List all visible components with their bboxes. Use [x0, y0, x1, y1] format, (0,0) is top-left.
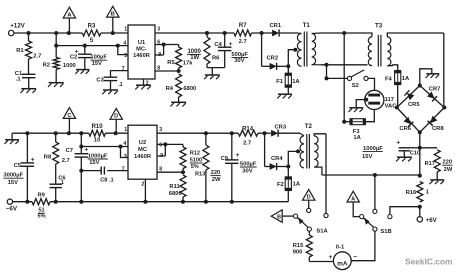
wire S2 branch — [325, 65, 348, 81]
svg-text:T2: T2 — [305, 123, 313, 130]
svg-text:mA: mA — [337, 261, 348, 268]
op-amp U2 MC-1460R — [128, 125, 157, 179]
wire pin 6/9 loop — [155, 45, 164, 56]
diode CR2 — [262, 56, 279, 70]
wire pin 2 ground stem — [143, 79, 145, 85]
node rail-C6 bottom — [54, 200, 58, 204]
node R5-R4-pin8 — [177, 69, 181, 73]
svg-text:0‑1: 0‑1 — [336, 244, 345, 250]
terminal +6V — [417, 207, 438, 224]
contact D S1A — [307, 208, 311, 212]
svg-text:2.7: 2.7 — [33, 53, 41, 59]
resistor R17 — [420, 148, 453, 180]
node CR4-F2 junction — [286, 165, 290, 169]
pin 3 label U1 — [157, 27, 160, 33]
wire R15 to meter — [309, 261, 333, 263]
switch S1B arm — [363, 218, 391, 235]
svg-text:220: 220 — [442, 160, 452, 166]
contact +6V S1B — [388, 215, 392, 219]
svg-text:S2: S2 — [352, 83, 359, 89]
node rail-R13 — [204, 131, 208, 135]
chassis ground bridge — [420, 69, 440, 86]
svg-text:C3: C3 — [96, 78, 104, 84]
contact meter S1B — [373, 227, 377, 231]
resistor R2 — [43, 46, 76, 83]
resistor R12 — [180, 144, 203, 172]
switch S1A arm — [297, 217, 328, 234]
node rail-C4 — [223, 31, 227, 35]
svg-text:CR5: CR5 — [408, 102, 420, 108]
resistor R6 1000 1W — [187, 33, 220, 68]
svg-text:100µF: 100µF — [90, 55, 107, 61]
wire R14 to CR3 — [258, 132, 271, 134]
diode CR6 — [399, 117, 413, 132]
svg-text:5%: 5% — [37, 214, 45, 220]
svg-text:500µF: 500µF — [240, 161, 257, 167]
svg-text:.1: .1 — [109, 177, 114, 183]
diode CR4 — [265, 156, 284, 170]
svg-text:R3: R3 — [88, 24, 96, 30]
svg-text:7: 7 — [122, 166, 125, 172]
node rail-R11 bottom — [181, 200, 185, 204]
svg-text:1A: 1A — [402, 76, 410, 82]
svg-text:3: 3 — [159, 127, 162, 133]
pin 4 label U2 — [123, 141, 126, 147]
pin 9 label U1 — [158, 52, 161, 58]
wire pin4 branch — [56, 33, 128, 46]
svg-text:C2: C2 — [70, 54, 77, 60]
capacitor C3 — [96, 77, 122, 90]
resistor R13 — [195, 133, 221, 202]
svg-text:R6: R6 — [212, 56, 220, 62]
node A marker bottom — [347, 191, 360, 216]
wire S1B upper drop — [374, 175, 376, 209]
svg-text:+: + — [329, 254, 333, 261]
svg-text:F1: F1 — [276, 79, 284, 85]
pin 5 label U2 — [124, 154, 127, 160]
svg-text:−: − — [353, 254, 357, 261]
svg-text:CR2: CR2 — [266, 56, 278, 62]
node A marker — [63, 7, 75, 33]
svg-text:5100: 5100 — [190, 157, 202, 163]
svg-text:R9: R9 — [37, 193, 45, 199]
svg-text:R4: R4 — [166, 86, 174, 92]
ground R6/C4 — [204, 75, 220, 79]
wire pin 2 to rail — [144, 179, 146, 202]
svg-text:+6V: +6V — [426, 217, 438, 224]
wire mid rail — [12, 132, 89, 134]
wire CR4 to tap — [277, 166, 289, 168]
resistor R1 — [16, 33, 41, 74]
node C marker — [63, 108, 75, 134]
node rail-C7 — [79, 131, 83, 135]
chassis ground mid rail — [4, 133, 19, 144]
svg-text:R16: R16 — [406, 190, 417, 196]
pin 1 label U2 — [124, 127, 127, 133]
svg-text:1000µF: 1000µF — [88, 153, 108, 159]
wire R6-C4 bottom — [207, 68, 225, 75]
wire meter to S1B — [351, 231, 375, 261]
bridge arm wires — [397, 86, 445, 133]
capacitor C2 — [70, 46, 108, 70]
pin 6 label U1 — [157, 39, 160, 45]
svg-text:8: 8 — [159, 166, 162, 172]
svg-text:5: 5 — [124, 154, 127, 160]
svg-text:500µF: 500µF — [231, 52, 248, 58]
svg-text:R15: R15 — [293, 243, 304, 249]
node bridge left — [395, 106, 399, 110]
pin 7 label U2 — [122, 166, 125, 172]
resistor R10 — [89, 124, 106, 144]
capacitor C6 — [49, 175, 65, 201]
svg-text:+: + — [236, 152, 240, 159]
svg-text:C: C — [67, 113, 71, 119]
node pin6-junction U2 — [163, 142, 167, 146]
svg-text:1A: 1A — [353, 135, 361, 141]
wire C8 to C7 stem — [79, 169, 101, 173]
wire CR4 branch down — [264, 133, 266, 166]
svg-text:F2: F2 — [277, 182, 284, 188]
wire right edge down — [443, 33, 445, 108]
resistor R15 — [293, 231, 313, 261]
node rail-C7 bottom — [79, 200, 83, 204]
node T1 primary tap — [288, 48, 297, 73]
capacitor C4 — [214, 33, 248, 68]
pin 2 label U1 — [146, 80, 149, 86]
ground R17 — [430, 180, 445, 184]
node rail-pin2 bottom — [143, 200, 147, 204]
node rail-triangle-C — [67, 131, 71, 135]
wire pin 8 stub U2 — [157, 171, 183, 173]
wire -6V to R9 — [13, 201, 32, 203]
pin 5 label U1 — [124, 53, 127, 59]
svg-text:B: B — [277, 214, 281, 220]
svg-text:2.7: 2.7 — [239, 39, 247, 45]
svg-text:3000µF: 3000µF — [3, 173, 23, 179]
node B marker — [107, 6, 119, 33]
svg-text:S1B: S1B — [380, 229, 391, 235]
svg-text:+12V: +12V — [10, 23, 25, 30]
node CR4 branch — [263, 131, 267, 135]
svg-text:R8: R8 — [44, 154, 52, 160]
node rail-R6 — [205, 31, 209, 35]
node rail-R2 branch — [54, 31, 58, 35]
svg-text:R13: R13 — [195, 172, 205, 178]
svg-text:C5: C5 — [14, 163, 22, 169]
wire pin 3 rail U2 — [157, 132, 238, 134]
node pin4-pin5 split U2 — [119, 145, 123, 149]
svg-text:6: 6 — [159, 142, 162, 148]
svg-text:2W: 2W — [444, 167, 453, 173]
svg-text:1000: 1000 — [63, 63, 76, 69]
switch S2 — [347, 70, 368, 89]
capacitor C10 — [362, 140, 420, 160]
pin 1 label U1 — [124, 27, 127, 33]
wire T2 secondary top drop — [325, 134, 327, 214]
switch S1B pivot — [360, 215, 364, 219]
svg-text:MC: MC — [138, 147, 148, 153]
resistor R11 — [169, 175, 186, 202]
node D marker bottom — [303, 189, 315, 208]
op-amp U1 MC-1460R — [128, 25, 155, 79]
wire pin 3 rail — [155, 32, 234, 34]
node bridge top — [418, 84, 422, 88]
wire pin4 stub — [121, 146, 129, 148]
node CR2 branch — [260, 31, 264, 35]
node rail-C9 bottom — [230, 200, 234, 204]
wire plug chassis — [356, 98, 368, 108]
transformer T3 — [368, 23, 393, 67]
svg-text:.1: .1 — [16, 77, 22, 83]
diode CR5 — [404, 90, 420, 108]
svg-text:2.7: 2.7 — [62, 158, 70, 164]
svg-text:CR1: CR1 — [269, 23, 281, 29]
pin 2 label U2 — [141, 181, 144, 187]
capacitor C1 — [15, 71, 36, 89]
capacitor C5 — [3, 133, 34, 202]
svg-text:117: 117 — [385, 97, 394, 103]
svg-text:1A: 1A — [293, 181, 301, 187]
node rail-triangle-A — [67, 31, 71, 35]
svg-text:1W: 1W — [190, 55, 199, 61]
resistor R3 — [82, 24, 101, 44]
ground C2 — [75, 70, 89, 74]
svg-text:10: 10 — [94, 138, 100, 144]
svg-text:.1: .1 — [59, 180, 64, 186]
pin 3 label U2 — [159, 127, 162, 133]
fuse F2 1A — [277, 167, 301, 202]
wire S2 to plug — [368, 78, 374, 90]
svg-text:C8: C8 — [100, 177, 107, 183]
capacitor C9 — [221, 133, 257, 202]
svg-text:1: 1 — [426, 190, 429, 196]
resistor R7 — [234, 23, 252, 45]
contact R15 S1A — [307, 227, 311, 231]
wire pin 7 stub — [107, 170, 128, 172]
node rail-R1 — [27, 31, 31, 35]
svg-text:1460R: 1460R — [134, 154, 152, 160]
svg-text:S1A: S1A — [316, 228, 328, 234]
wire pin 7 to C3 — [111, 71, 129, 78]
svg-text:6800: 6800 — [183, 86, 196, 92]
svg-text:15V: 15V — [8, 180, 18, 186]
svg-text:R5: R5 — [167, 60, 175, 66]
wire to R12 — [165, 143, 183, 145]
svg-text:5%: 5% — [191, 164, 199, 170]
node R12-R11-pin8 — [181, 170, 185, 174]
svg-text:T3: T3 — [375, 23, 383, 30]
wire T2 secondary bottom — [322, 174, 422, 178]
wire R7 to CR1 — [252, 32, 273, 34]
svg-text:1A: 1A — [292, 79, 300, 85]
svg-text:C7: C7 — [66, 148, 73, 154]
svg-text:.1: .1 — [118, 82, 123, 88]
node bridge bottom — [418, 130, 422, 134]
node pin6-junction — [162, 43, 166, 47]
svg-text:900: 900 — [293, 249, 303, 255]
wire +12V rail — [14, 32, 82, 34]
svg-text:5: 5 — [124, 53, 127, 59]
svg-text:CR3: CR3 — [274, 125, 286, 131]
svg-text:R7: R7 — [239, 23, 247, 29]
svg-text:3: 3 — [157, 27, 160, 33]
node C10/R17 junction — [418, 146, 422, 150]
terminal -6V input — [6, 199, 18, 212]
node rail-C9 — [230, 131, 234, 135]
svg-text:1460R: 1460R — [133, 53, 150, 59]
diode CR8 — [428, 116, 445, 132]
fuse F3 1A — [344, 119, 365, 142]
node top wire-F3 branch — [342, 31, 346, 35]
wire F4 to bridge left — [397, 85, 399, 108]
ground C3 — [102, 90, 118, 94]
svg-text:15V: 15V — [89, 160, 99, 166]
node rail-triangle-B — [111, 31, 115, 35]
svg-text:R1: R1 — [16, 48, 24, 54]
node pin4-R2 — [54, 44, 58, 48]
resistor R16 — [406, 182, 429, 203]
svg-text:F4: F4 — [385, 76, 393, 82]
svg-text:6800: 6800 — [169, 191, 182, 197]
node T2 primary tap — [288, 149, 300, 166]
svg-text:17k: 17k — [183, 61, 193, 67]
fuse F4 1A — [385, 71, 410, 85]
contact upper S1B — [373, 209, 377, 213]
svg-text:U1: U1 — [138, 40, 145, 46]
transformer T1 — [297, 22, 321, 67]
svg-text:CR4: CR4 — [271, 156, 283, 162]
wire T3 bottom to F4 — [392, 65, 397, 71]
ground C10 — [396, 157, 412, 161]
diode CR3 — [271, 125, 287, 137]
pin 9 label U2 — [160, 153, 163, 159]
wire R10 to U2 pin 1 — [105, 132, 128, 134]
wire -6V rail — [50, 201, 288, 203]
svg-text:B: B — [111, 12, 115, 18]
ground U1 pin 2 — [135, 85, 151, 89]
svg-text:2.7: 2.7 — [243, 141, 251, 147]
node pin4-C2 — [83, 44, 87, 48]
wire bridge bottom down — [419, 132, 421, 175]
wire CR3 to T2 — [278, 132, 300, 134]
node rail-R8 — [54, 131, 58, 135]
node B marker bottom — [271, 210, 293, 222]
svg-text:R2: R2 — [43, 62, 50, 68]
svg-text:CR7: CR7 — [429, 86, 441, 92]
svg-text:SeekIC.com: SeekIC.com — [405, 257, 452, 267]
wire R3 to U1 pin 1 — [101, 32, 128, 34]
node bridge right — [442, 106, 446, 110]
node CR2-F1 junction — [286, 64, 290, 68]
wire T1 to T3 top — [321, 32, 368, 34]
socket 117 VAC — [365, 90, 398, 109]
svg-text:30V: 30V — [242, 168, 252, 174]
wire T3 top to right edge — [393, 32, 444, 34]
wire pin 8 to R5/R4 — [155, 70, 179, 72]
svg-text:C10: C10 — [410, 150, 420, 156]
svg-text:1: 1 — [124, 127, 127, 133]
svg-text:CR8: CR8 — [432, 126, 444, 132]
svg-text:MC-: MC- — [136, 46, 147, 52]
chassis ground plug — [349, 108, 364, 112]
svg-text:1000µF: 1000µF — [363, 146, 383, 152]
pin 8 label U1 — [157, 65, 160, 71]
wire CR2 to tap — [277, 65, 289, 67]
node pin4-pin5 split — [116, 44, 120, 48]
pin 4 label U1 — [123, 40, 126, 46]
svg-text:2W: 2W — [212, 177, 221, 183]
terminal +12V input — [9, 23, 26, 36]
wire F3 to plug — [365, 110, 374, 122]
resistor R5 — [167, 45, 193, 72]
svg-text:15V: 15V — [362, 154, 372, 160]
capacitor C7 — [66, 133, 108, 202]
wire CR1 to T1 — [279, 32, 297, 34]
wire pin 6/9 loop U2 — [157, 144, 165, 156]
switch S1A pivot — [294, 214, 298, 218]
svg-text:R17: R17 — [425, 161, 435, 167]
svg-text:4: 4 — [123, 40, 126, 46]
svg-text:R14: R14 — [242, 126, 254, 132]
resistor R4 — [166, 74, 197, 102]
svg-text:R10: R10 — [92, 124, 104, 130]
wire CR2 branch down — [261, 33, 263, 66]
svg-text:2: 2 — [141, 181, 144, 187]
node rail-C5 bottom — [25, 200, 29, 204]
meter 0-1 mA — [329, 244, 358, 269]
wire F3 drop — [342, 33, 346, 124]
ground C1 — [21, 89, 37, 93]
contact T2 S1A — [324, 213, 328, 217]
resistor R8 — [44, 133, 70, 184]
svg-text:D: D — [114, 114, 118, 120]
svg-text:220: 220 — [211, 170, 221, 176]
svg-text:30V: 30V — [234, 58, 244, 64]
ground R2 — [48, 83, 64, 87]
wire pin 5 loop U1 — [118, 46, 128, 55]
ground R4 — [170, 102, 186, 106]
transformer T2 — [300, 123, 326, 175]
node rail-triangle-D — [114, 131, 118, 135]
node +6V junction — [418, 205, 422, 209]
svg-text:1: 1 — [124, 27, 127, 33]
node C7-pin4 — [79, 145, 83, 149]
svg-text:D: D — [307, 195, 311, 201]
svg-text:4: 4 — [123, 141, 126, 147]
resistor R14 — [238, 126, 258, 146]
svg-text:+: + — [396, 140, 400, 147]
diode CR1 — [269, 23, 281, 37]
svg-text:−6V: −6V — [6, 205, 18, 212]
pin 6 label U2 — [159, 142, 162, 148]
wire T1 bottom link — [321, 64, 368, 66]
pin 8 label U2 — [159, 166, 162, 172]
wire to S1B right contact — [390, 207, 420, 215]
svg-text:A: A — [351, 196, 355, 202]
wire to R5 — [164, 44, 179, 46]
svg-text:CR6: CR6 — [399, 126, 411, 132]
node rail-C5 — [25, 131, 29, 135]
ground F1 — [277, 94, 292, 98]
node S2 branch — [325, 63, 329, 67]
svg-text:R11: R11 — [169, 184, 180, 190]
fuse F1 1A — [276, 73, 300, 94]
node D marker — [110, 109, 122, 134]
svg-text:U2: U2 — [139, 140, 146, 146]
resistor R9 — [32, 193, 50, 220]
wire pin4 branch U2 — [81, 146, 120, 148]
svg-text:A: A — [67, 12, 71, 18]
